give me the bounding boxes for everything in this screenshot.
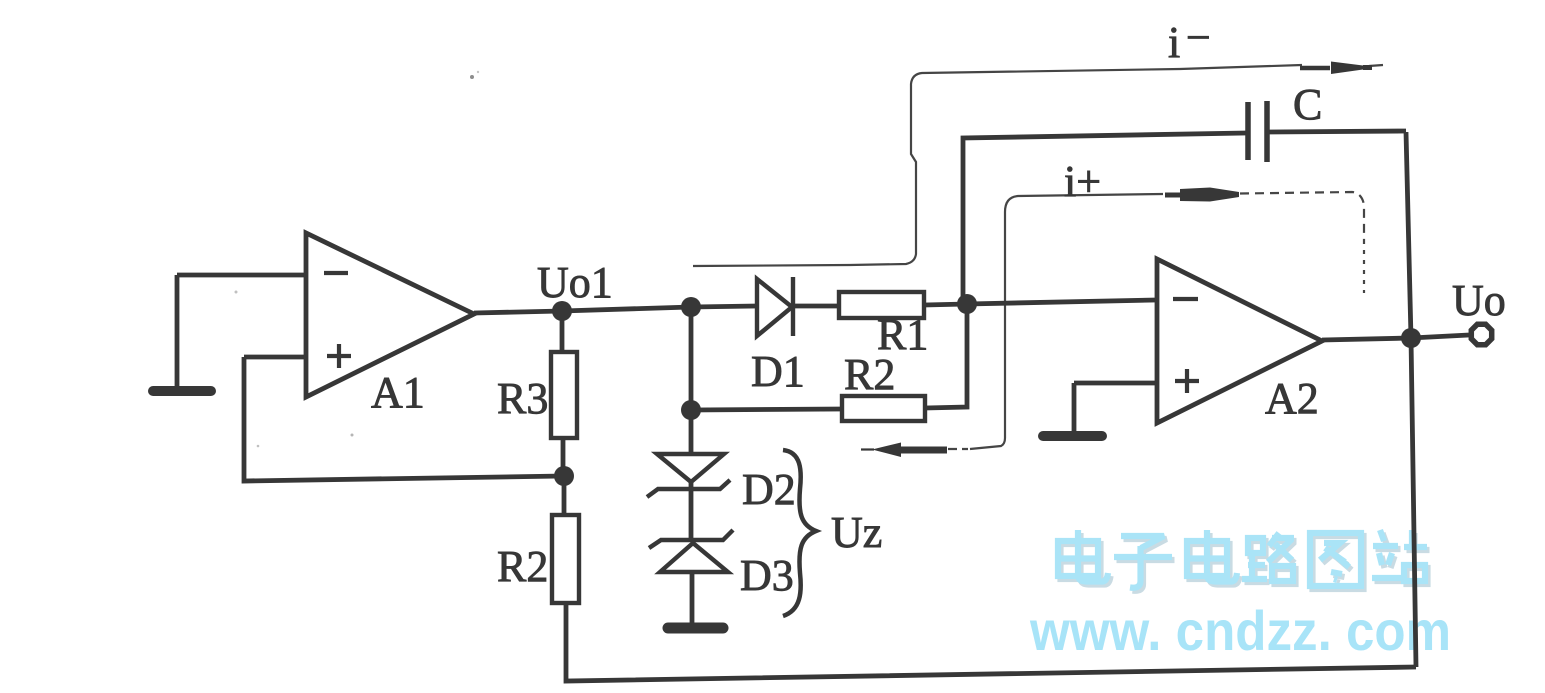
svg-text:A2: A2 [1265,374,1319,423]
svg-text:i+: i+ [1064,157,1101,206]
svg-text:Uo1: Uo1 [537,258,613,307]
svg-text:R3: R3 [497,374,548,423]
svg-text:Uz: Uz [831,508,882,557]
svg-text:www. cndzz. com: www. cndzz. com [1029,599,1451,662]
svg-text:D2: D2 [742,465,796,514]
svg-text:D1: D1 [751,347,805,396]
svg-text:A1: A1 [371,368,425,417]
svg-text:D3: D3 [740,551,794,600]
svg-text:C: C [1293,80,1322,129]
svg-text:−: − [1186,13,1211,62]
svg-text:R2: R2 [844,350,895,399]
svg-text:i: i [1168,18,1180,67]
svg-text:R2: R2 [497,542,548,591]
svg-text:Uo: Uo [1452,276,1506,325]
